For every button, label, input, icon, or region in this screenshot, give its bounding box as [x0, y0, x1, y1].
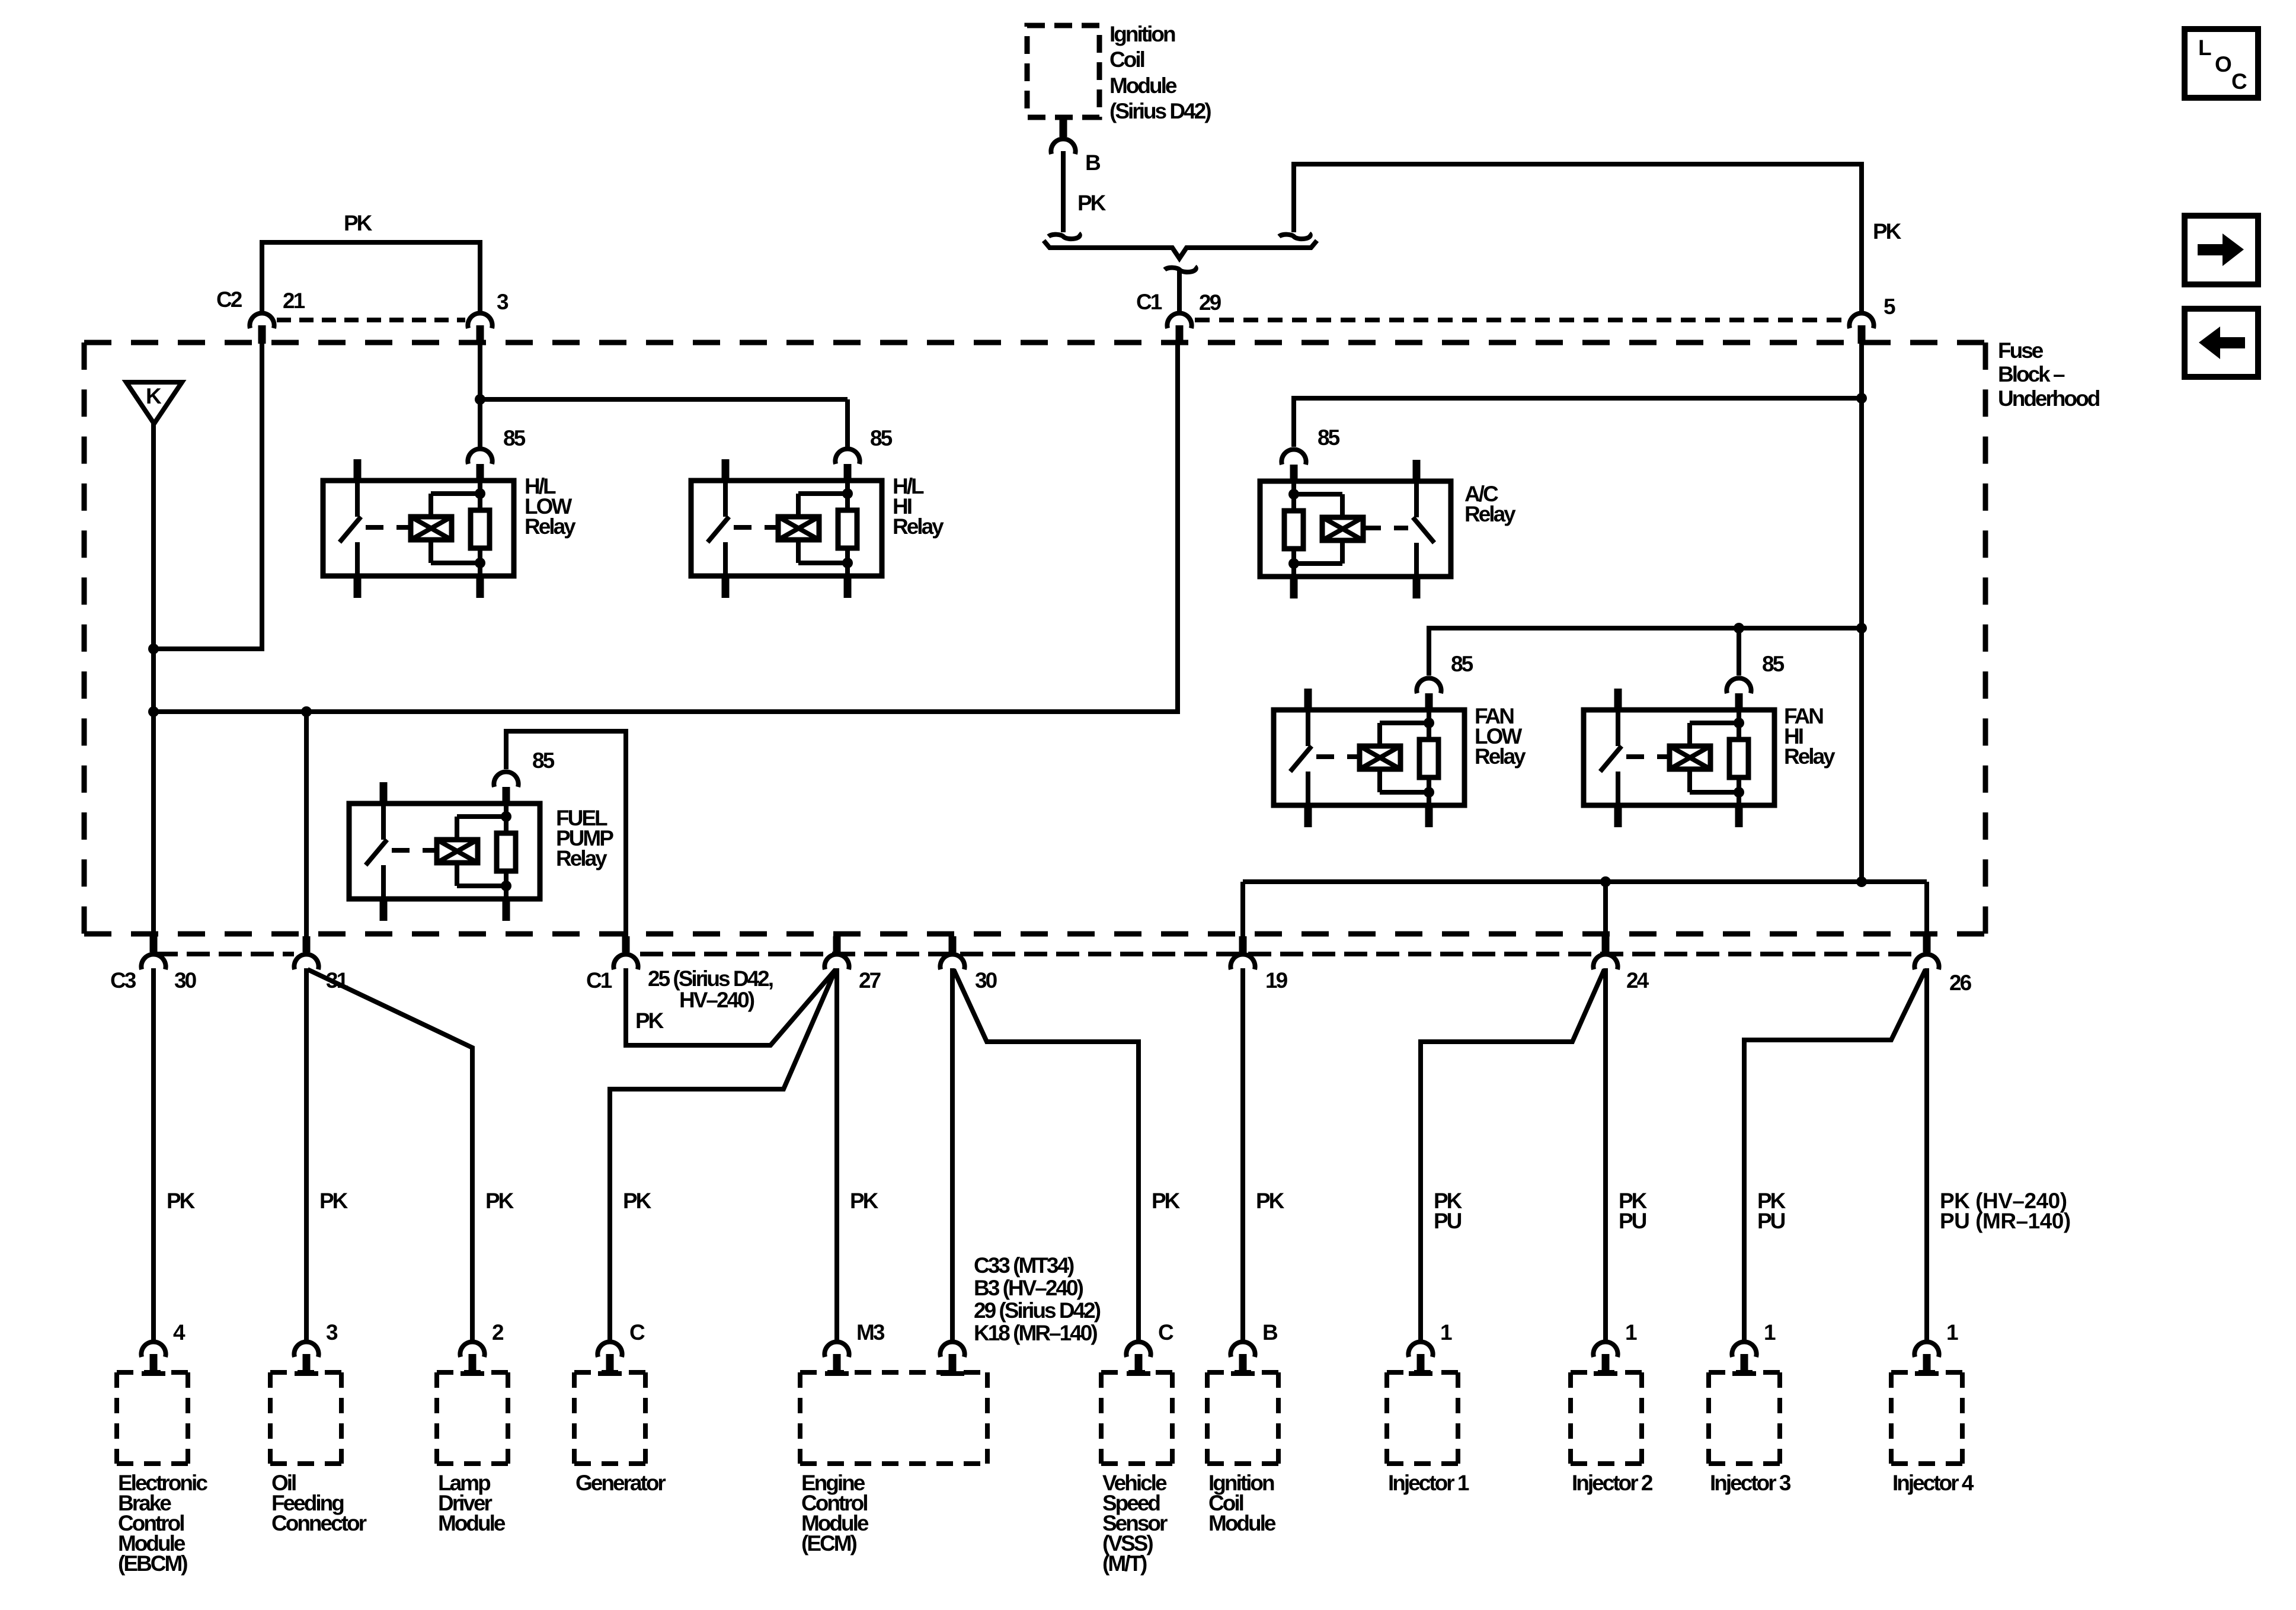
connector pin 3 at Oil Feeding Connector	[294, 1342, 318, 1357]
switch pin stubs	[380, 782, 388, 804]
svg-text:PU: PU	[1434, 1209, 1462, 1233]
coil pin 86 stub	[477, 576, 484, 598]
connector 3	[468, 313, 492, 328]
svg-text:85: 85	[1451, 652, 1473, 676]
wire 31 to Oil Feeding Connector	[304, 968, 309, 1340]
coil to resistor rails	[455, 817, 459, 840]
connector 24 bottom row	[1602, 936, 1610, 952]
switch contacts and blade	[381, 804, 386, 840]
wire connector 3 to H/L relays 85	[478, 344, 482, 447]
svg-text:Fuse: Fuse	[1998, 338, 2044, 363]
svg-text:C33 (MT34): C33 (MT34)	[974, 1253, 1074, 1278]
wire to A/C relay 85	[1294, 398, 1862, 447]
wire 24 to Injector 2	[1603, 968, 1608, 1340]
splice hook left	[1048, 233, 1080, 239]
pin 85 connector	[503, 784, 510, 804]
pin 85 connector	[1425, 690, 1433, 710]
svg-text:Relay: Relay	[1784, 744, 1835, 769]
svg-text:C1: C1	[1136, 290, 1162, 314]
svg-text:26: 26	[1949, 971, 1972, 995]
arrow previous page (left)	[2185, 309, 2258, 377]
coil pin 86 stub	[1290, 577, 1298, 598]
junction FAN bus	[1856, 623, 1867, 633]
wire 26 branch to Injector 3	[1744, 969, 1926, 1340]
svg-text:Injector 2: Injector 2	[1572, 1471, 1653, 1495]
switch contacts and blade	[723, 481, 728, 517]
svg-text:PK: PK	[167, 1189, 196, 1213]
connector 26 bottom row	[1923, 936, 1931, 952]
wire 30 branch to VSS	[954, 969, 1139, 1340]
switch pin stubs	[1614, 689, 1622, 710]
wire 19 to Ignition Coil Module	[1240, 968, 1245, 1340]
Fuse Block - Underhood dashed border	[84, 340, 1985, 345]
resistor	[497, 833, 516, 871]
switch pin stubs	[722, 459, 730, 481]
dashed actuator linkage	[1316, 754, 1360, 759]
resistor	[1729, 740, 1748, 777]
svg-text:85: 85	[1318, 425, 1340, 450]
wire 24 branch to Injector 1	[1421, 969, 1604, 1340]
wire PK from ICM pin B down to splice	[1061, 151, 1066, 232]
module box Electronic Brake Control Module (EBCM)	[117, 1370, 188, 1375]
svg-text:1: 1	[1764, 1320, 1776, 1345]
dashed actuator linkage	[392, 848, 437, 853]
splice bus brace	[1044, 241, 1317, 258]
coil to resistor rails	[1340, 494, 1345, 517]
relay box	[1260, 481, 1451, 577]
svg-text:Module: Module	[1109, 73, 1177, 98]
switch contacts and blade	[1616, 710, 1620, 746]
svg-text:(Sirius D42): (Sirius D42)	[1109, 99, 1211, 123]
coil to resistor rails	[1687, 723, 1692, 746]
svg-text:O: O	[2215, 52, 2231, 76]
svg-text:C3: C3	[110, 968, 136, 993]
terminal strip dotted 29 to 5	[1195, 318, 1846, 322]
coil pin wire	[1737, 710, 1741, 805]
junction at H/L LOW 85	[475, 394, 485, 405]
svg-text:Module: Module	[1208, 1511, 1276, 1535]
pin 85 connector	[1290, 462, 1298, 481]
wire from connector 21 down and left to K wire	[154, 344, 262, 649]
coil pin wire	[845, 481, 850, 576]
relay box	[323, 481, 514, 576]
svg-text:Generator: Generator	[575, 1471, 666, 1495]
coil element	[778, 517, 819, 540]
bus wire inside fuse block	[154, 344, 1178, 712]
switch pin stubs	[1304, 689, 1312, 710]
svg-text:85: 85	[503, 426, 526, 450]
connector 30 bottom row	[949, 936, 957, 952]
connector C1/ bottom row	[622, 936, 630, 952]
wire connector 5 down through fuse block	[1859, 344, 1864, 882]
resistor	[471, 510, 490, 548]
connector 19 bottom row	[1239, 936, 1247, 952]
svg-text:PK: PK	[623, 1189, 652, 1213]
svg-text:C: C	[2231, 69, 2247, 94]
connector pin C at Generator	[597, 1342, 622, 1357]
coil pin wire	[1427, 710, 1431, 805]
connector 27 bottom row	[833, 936, 841, 952]
module box Generator	[574, 1370, 645, 1375]
connector 5	[1849, 313, 1873, 328]
connector C3/30 bottom row	[150, 936, 158, 952]
connector 31 bottom row	[303, 936, 311, 952]
switch contacts and blade	[1414, 481, 1419, 517]
pin 85 connector	[844, 461, 852, 481]
connector C1/29	[1167, 313, 1191, 328]
svg-text:29 (Sirius D42): 29 (Sirius D42)	[974, 1298, 1101, 1323]
Ignition Coil Module (top, Sirius D42)	[1027, 25, 1099, 117]
wire lower distribution	[1243, 879, 1927, 884]
pin 85 connector	[477, 461, 484, 481]
wire from K down to bus	[151, 424, 156, 712]
svg-text:85: 85	[870, 426, 893, 450]
relay box	[1274, 710, 1464, 805]
svg-text:B3 (HV–240): B3 (HV–240)	[974, 1276, 1083, 1300]
svg-text:PK: PK	[485, 1189, 514, 1213]
switch contacts and blade	[1306, 710, 1310, 746]
connector pin 2 at Lamp Driver Module	[460, 1342, 484, 1357]
svg-text:(M/T): (M/T)	[1102, 1551, 1147, 1576]
junction at 24	[1600, 876, 1611, 887]
wire 25 link to 27	[626, 968, 836, 1045]
svg-text:Ignition: Ignition	[1109, 22, 1175, 46]
svg-text:24: 24	[1626, 968, 1649, 993]
svg-text:Injector 1: Injector 1	[1388, 1471, 1469, 1495]
connector pin M3 at Engine Control Module (ECM)	[824, 1342, 849, 1357]
coil pin 86 stub	[1425, 805, 1433, 827]
connector pin 4 at Electronic Brake Control Module (EBCM)	[141, 1342, 165, 1357]
svg-text:Relay: Relay	[1464, 502, 1516, 526]
svg-text:30: 30	[174, 968, 197, 993]
junction dots	[1734, 718, 1744, 728]
svg-text:Relay: Relay	[1475, 744, 1526, 769]
switch pin stubs	[354, 459, 362, 481]
junction dots	[1424, 718, 1434, 728]
svg-text:21: 21	[283, 289, 305, 313]
svg-text:Block –: Block –	[1998, 362, 2065, 386]
coil element	[1322, 517, 1363, 540]
svg-text:Injector 3: Injector 3	[1710, 1471, 1791, 1495]
svg-text:C2: C2	[216, 287, 242, 312]
svg-text:PU (MR–140): PU (MR–140)	[1940, 1209, 2071, 1233]
junction K/21	[148, 644, 159, 654]
svg-text:1: 1	[1440, 1320, 1452, 1345]
svg-text:K18 (MR–140): K18 (MR–140)	[974, 1321, 1097, 1345]
svg-text:Underhood: Underhood	[1998, 386, 2100, 411]
resistor	[838, 510, 857, 548]
svg-text:19: 19	[1265, 968, 1288, 993]
svg-text:B: B	[1085, 151, 1101, 175]
resistor	[1419, 740, 1438, 777]
junction dots	[475, 488, 485, 499]
svg-text:Module: Module	[438, 1511, 506, 1535]
svg-text:Injector 4: Injector 4	[1892, 1471, 1974, 1495]
wire to connector C1 29	[1177, 270, 1182, 311]
K fuse symbol (triangle)	[126, 382, 182, 424]
svg-text:HV–240): HV–240)	[679, 988, 754, 1012]
svg-text:PK: PK	[1077, 191, 1107, 215]
coil to resistor rails	[428, 494, 433, 517]
svg-text:25 (Sirius D42,: 25 (Sirius D42,	[648, 966, 773, 991]
dashed actuator linkage	[734, 525, 778, 530]
coil element	[411, 517, 452, 540]
wire 30 to ECM second pin	[950, 968, 955, 1340]
connector pin 1 at Injector 3	[1732, 1342, 1756, 1357]
connector C2/21	[250, 313, 274, 328]
junction bus left	[148, 706, 159, 717]
wire 27 to ECM M3	[834, 968, 839, 1340]
svg-text:Relay: Relay	[893, 514, 944, 539]
svg-text:PK: PK	[344, 211, 373, 235]
svg-text:Connector: Connector	[271, 1511, 367, 1535]
module box Oil Feeding Connector	[270, 1370, 341, 1375]
svg-text:PK: PK	[635, 1009, 664, 1033]
junction dots	[501, 811, 511, 822]
module box Injector 2	[1571, 1370, 1642, 1375]
coil to resistor rails	[796, 494, 801, 517]
coil pin 86 stub	[1735, 805, 1743, 827]
switch contacts and blade	[355, 481, 360, 517]
wire PK from fuse block pin 5 (top right run)	[1294, 164, 1862, 311]
pin 85 connector	[1735, 690, 1743, 710]
wire to FAN relays 85	[1429, 628, 1862, 676]
junction FAN HI feed	[1734, 623, 1744, 633]
svg-text:27: 27	[859, 968, 881, 993]
svg-text:PK: PK	[1152, 1189, 1181, 1213]
svg-text:85: 85	[1762, 652, 1785, 676]
svg-text:C: C	[1158, 1320, 1173, 1345]
svg-text:PU: PU	[1757, 1209, 1785, 1233]
coil element	[1670, 746, 1710, 769]
relay box	[691, 481, 882, 576]
junction lower main	[1856, 876, 1867, 887]
module box Lamp Driver Module	[437, 1370, 508, 1375]
module box Engine Control Module (ECM)	[800, 1370, 987, 1375]
dashed actuator linkage	[1626, 754, 1670, 759]
wire bus down to connector 31	[304, 712, 309, 936]
junction bus at 31	[301, 706, 312, 717]
connector pin 1 at Injector 1	[1408, 1342, 1432, 1357]
svg-text:3: 3	[497, 290, 509, 314]
coil element	[437, 840, 478, 863]
svg-text:85: 85	[532, 748, 555, 773]
svg-text:30: 30	[975, 968, 997, 993]
svg-text:PK: PK	[1256, 1189, 1285, 1213]
wire 31 branch to Lamp Driver Module	[308, 969, 472, 1340]
svg-text:PU: PU	[1619, 1209, 1646, 1233]
connector pin C at Vehicle Speed Sensor (VSS)	[1126, 1342, 1150, 1357]
svg-text:3: 3	[326, 1320, 338, 1345]
svg-text:Relay: Relay	[556, 846, 607, 870]
wire 30 to EBCM	[151, 968, 156, 1340]
wire 26 to Injector 4	[1924, 968, 1929, 1340]
arrow next page (right)	[2185, 216, 2258, 284]
module box Vehicle Speed Sensor (VSS)	[1101, 1370, 1172, 1375]
coil pin wire	[504, 804, 509, 899]
module box Injector 3	[1709, 1370, 1780, 1375]
splice hook center	[1165, 267, 1196, 272]
svg-text:(EBCM): (EBCM)	[118, 1551, 187, 1576]
splice hook right	[1279, 233, 1310, 239]
connector pin 1 at Injector 2	[1593, 1342, 1617, 1357]
dashed actuator linkage	[1363, 526, 1408, 530]
terminal strip C1 (25 to 26)	[640, 952, 1913, 956]
terminal strip dotted 21 to 3	[277, 318, 465, 322]
svg-text:B: B	[1262, 1320, 1278, 1345]
svg-text:M3: M3	[856, 1320, 885, 1345]
svg-text:(ECM): (ECM)	[801, 1531, 857, 1555]
LOC reference box	[2185, 29, 2258, 98]
coil pin wire	[478, 481, 482, 576]
svg-text:1: 1	[1625, 1320, 1637, 1345]
coil element	[1360, 746, 1400, 769]
svg-text:C: C	[629, 1320, 645, 1345]
svg-text:PK: PK	[1873, 219, 1902, 244]
svg-text:K: K	[146, 384, 162, 408]
relay box	[1584, 710, 1774, 805]
connector pin 1 at Injector 4	[1914, 1342, 1939, 1357]
dashed actuator linkage	[366, 525, 411, 530]
wire bus down to connector C3/30	[151, 712, 156, 936]
pin B of Ignition Coil Module	[1060, 117, 1067, 137]
junction dots	[1288, 489, 1299, 500]
wire FUEL PUMP relay 85 to connector 25	[506, 731, 626, 936]
svg-text:29: 29	[1199, 290, 1221, 315]
coil pin 86 stub	[844, 576, 852, 598]
svg-text:2: 2	[492, 1320, 504, 1345]
connector pin B at Ignition Coil Module	[1230, 1342, 1255, 1357]
svg-text:1: 1	[1946, 1320, 1958, 1345]
resistor	[1284, 511, 1303, 549]
junction dots	[842, 488, 853, 499]
junction A/C feed	[1856, 393, 1867, 404]
switch pin stubs	[1413, 460, 1421, 481]
wire PK loop over C2 connectors	[262, 242, 480, 311]
relay box	[349, 804, 540, 899]
terminal strip C3 (30 to 31)	[155, 952, 294, 956]
svg-text:PK: PK	[319, 1189, 348, 1213]
svg-text:PK: PK	[850, 1189, 879, 1213]
coil pin wire	[1291, 481, 1296, 577]
svg-text:Coil: Coil	[1109, 47, 1144, 72]
svg-text:Relay: Relay	[525, 514, 576, 539]
connector pin K18 at ECM (second)	[940, 1342, 964, 1357]
svg-text:5: 5	[1884, 295, 1895, 319]
svg-text:C1: C1	[586, 968, 612, 993]
wire 27 branch to Generator	[610, 969, 836, 1340]
module box Injector 1	[1387, 1370, 1458, 1375]
coil pin 86 stub	[503, 899, 510, 921]
module box Ignition Coil Module	[1207, 1370, 1278, 1375]
coil to resistor rails	[1377, 723, 1382, 746]
module box Injector 4	[1891, 1370, 1962, 1375]
svg-text:L: L	[2198, 36, 2211, 60]
